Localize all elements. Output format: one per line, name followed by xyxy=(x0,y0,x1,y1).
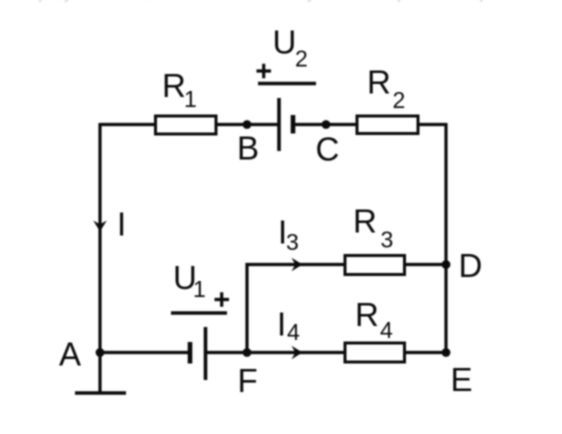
svg-text:R: R xyxy=(353,203,377,240)
svg-text:1: 1 xyxy=(193,276,206,302)
svg-text:R: R xyxy=(355,296,379,333)
svg-text:3: 3 xyxy=(381,227,394,253)
svg-text:R: R xyxy=(367,64,391,101)
svg-text:E: E xyxy=(451,361,473,398)
svg-text:B: B xyxy=(237,130,259,167)
svg-text:I: I xyxy=(117,206,126,243)
svg-text:U: U xyxy=(273,24,297,61)
svg-text:3: 3 xyxy=(286,229,299,255)
svg-text:2: 2 xyxy=(393,87,406,113)
svg-text:F: F xyxy=(238,362,258,399)
svg-text:C: C xyxy=(316,131,340,168)
svg-text:I: I xyxy=(277,306,286,343)
svg-text:D: D xyxy=(459,247,483,284)
svg-text:1: 1 xyxy=(184,86,197,112)
svg-text:4: 4 xyxy=(287,319,300,345)
svg-text:4: 4 xyxy=(380,317,393,343)
svg-text:A: A xyxy=(59,335,81,372)
svg-text:2: 2 xyxy=(295,46,308,72)
svg-text:R: R xyxy=(162,67,186,104)
